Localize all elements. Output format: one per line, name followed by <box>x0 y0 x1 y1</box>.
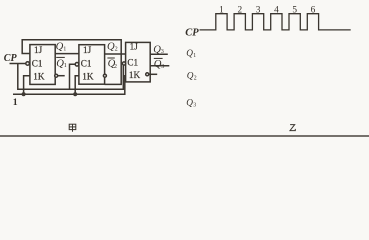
svg-text:3: 3 <box>193 102 196 108</box>
svg-text:1J: 1J <box>34 45 43 55</box>
svg-text:1J: 1J <box>83 45 92 55</box>
svg-text:C1: C1 <box>32 58 43 68</box>
svg-text:2: 2 <box>115 46 118 53</box>
svg-text:2: 2 <box>237 5 242 15</box>
svg-text:Q: Q <box>187 72 194 82</box>
svg-text:1: 1 <box>64 62 67 69</box>
svg-text:3: 3 <box>161 63 164 70</box>
svg-text:6: 6 <box>311 5 316 15</box>
svg-text:1: 1 <box>63 46 66 53</box>
svg-text:1K: 1K <box>129 70 141 80</box>
svg-text:3: 3 <box>161 48 164 55</box>
svg-text:5: 5 <box>292 5 297 15</box>
svg-text:C1: C1 <box>127 58 138 68</box>
svg-text:1J: 1J <box>130 42 139 52</box>
svg-text:3: 3 <box>256 5 261 15</box>
svg-text:Q: Q <box>186 49 193 59</box>
svg-text:CP: CP <box>185 27 199 38</box>
svg-text:1: 1 <box>193 53 196 59</box>
svg-text:Q: Q <box>186 98 193 108</box>
svg-text:2: 2 <box>114 63 117 70</box>
svg-text:C1: C1 <box>81 58 92 68</box>
svg-text:4: 4 <box>274 5 279 15</box>
svg-text:1: 1 <box>13 97 18 108</box>
svg-text:1K: 1K <box>33 71 45 81</box>
svg-text:2: 2 <box>194 76 197 82</box>
svg-text:1K: 1K <box>82 71 94 81</box>
svg-text:1: 1 <box>219 5 224 15</box>
svg-text:CP: CP <box>4 53 18 64</box>
